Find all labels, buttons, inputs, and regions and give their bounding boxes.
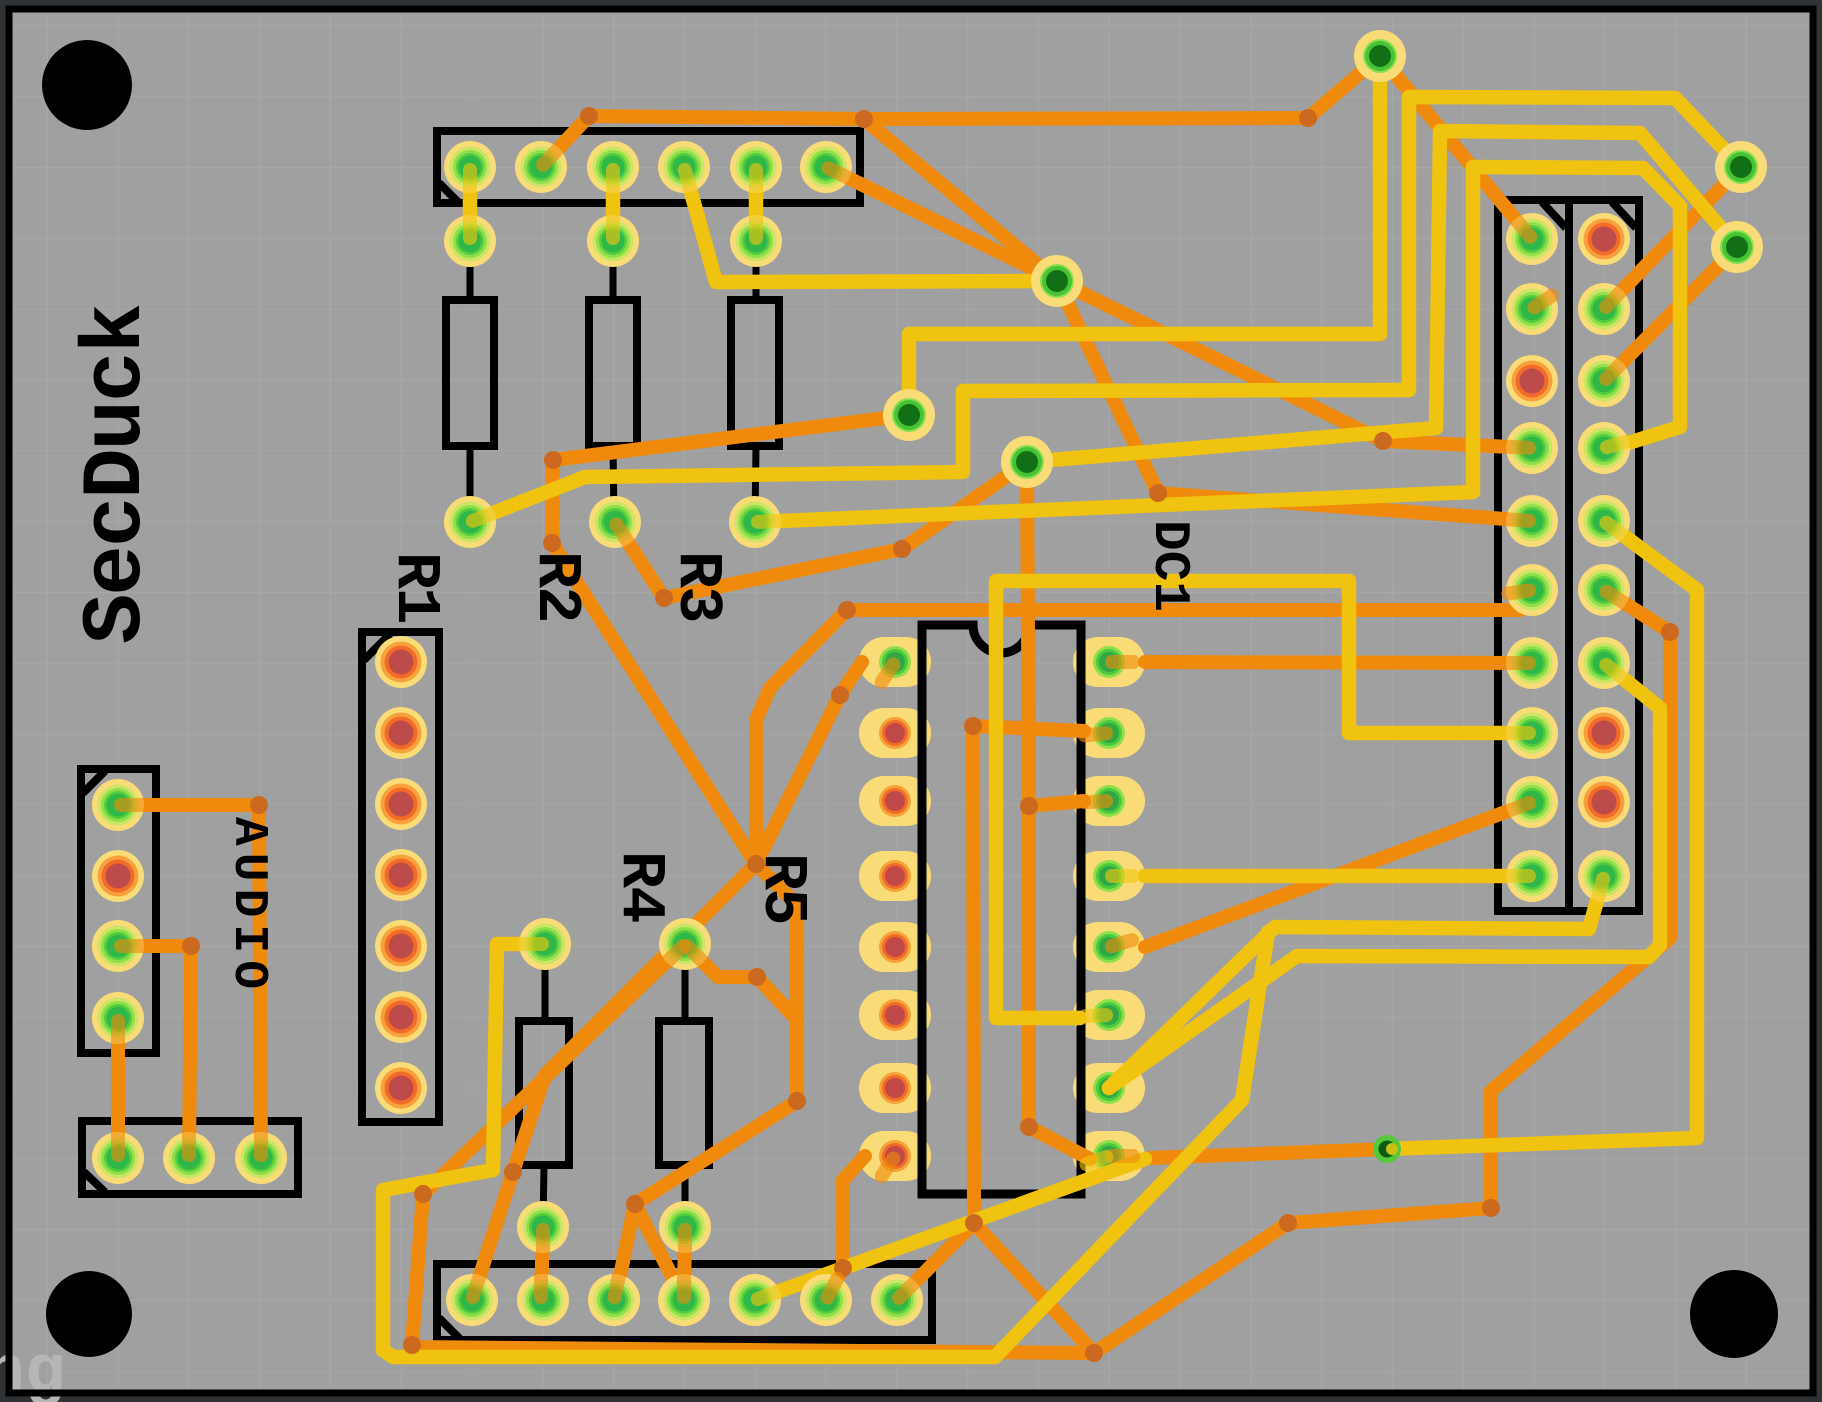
- IC U1 pin 10 pad: [1073, 1063, 1145, 1113]
- wire yellow stub col1: [463, 167, 478, 241]
- DC1 right pad: [1578, 850, 1630, 902]
- IC U1 pin 12 pad: [1073, 922, 1145, 972]
- AUDIO pin 4: [92, 992, 144, 1044]
- mounting hole bottom-left: [46, 1271, 132, 1357]
- wire D1 to D3 vertical: [756, 864, 797, 1101]
- R1 header pin 2: [375, 707, 427, 759]
- wire inner node down to bottom: [973, 726, 974, 1223]
- 3pin header pad: [92, 1132, 144, 1184]
- connector R1 7-pin female header outline: [362, 632, 439, 1122]
- bottom header pad: [871, 1274, 923, 1326]
- wire bottom bus up right: [1094, 590, 1670, 1353]
- svg-text:DC1: DC1: [1140, 520, 1197, 612]
- wire R2 bottom to via C: [615, 462, 1027, 598]
- DC1 left pad: [1506, 283, 1558, 335]
- wire R1 bottom to via V1: [470, 97, 1741, 522]
- wire via D to DC1 L1: [1380, 56, 1532, 239]
- IC U1 pin 7 pad: [859, 1063, 931, 1113]
- wire via S to IC R8: [1150, 1149, 1387, 1158]
- wire IC R7 to DC1 R10: [1109, 876, 1604, 1088]
- bottom header pad: [588, 1274, 640, 1326]
- wire orange to via A: [864, 119, 1057, 281]
- AUDIO pin 1: [92, 779, 144, 831]
- AUDIO pin 3: [92, 920, 144, 972]
- IC U1 pin 9 pad: [1073, 1131, 1145, 1181]
- wire header pad6 to DC1 L4: [826, 167, 1532, 448]
- via B: [883, 389, 935, 441]
- wire branch to IC R3: [1029, 801, 1084, 806]
- J1 pin 6: [800, 141, 852, 193]
- R4 bottom pad: [517, 1201, 569, 1253]
- resistor top pad: [730, 215, 782, 267]
- DC1 right pad: [1578, 637, 1630, 689]
- bottom header pad: [517, 1274, 569, 1326]
- R3 bottom pad: [729, 496, 781, 548]
- R1 header pin 5: [375, 920, 427, 972]
- wire via V2 to DC1 R3: [1604, 247, 1737, 381]
- wire orange top bus: [589, 116, 1308, 119]
- wire R4 bottom to pad2: [541, 1227, 543, 1300]
- svg-text:R1: R1: [380, 552, 451, 622]
- IC U1 pin 11 pad: [1073, 990, 1145, 1040]
- R1 header pin 1: [375, 636, 427, 688]
- wire IC R5 to DC1 L9: [1145, 802, 1532, 947]
- DC1 left pad: [1506, 850, 1558, 902]
- connector J1 6-pin header outline: [437, 131, 860, 203]
- via S small: [1373, 1135, 1401, 1163]
- 3pin header pad: [235, 1132, 287, 1184]
- wire AUDIO pad4 down: [111, 1018, 125, 1158]
- wire node to bottom pad7: [897, 1223, 974, 1300]
- IC U1 pin 8 pad: [859, 1131, 931, 1181]
- DC1 right pad: [1578, 564, 1630, 616]
- connector bottom 7-pin header outline: [437, 1264, 932, 1340]
- DC1 right pad: [1578, 776, 1630, 828]
- svg-text:R5: R5: [747, 853, 818, 923]
- R4 top pad: [519, 918, 571, 970]
- svg-text:AUDIO: AUDIO: [221, 817, 275, 996]
- R1 header pin 7: [375, 1062, 427, 1114]
- R2 bottom pad: [589, 496, 641, 548]
- IC U1 pin 16 pad: [1073, 637, 1145, 687]
- wire orange to header pad2: [541, 116, 589, 167]
- IC U1 pin 4 pad: [859, 851, 931, 901]
- resistor R2 body and leads: [589, 241, 637, 522]
- wire via B to junction D1: [552, 415, 909, 864]
- AUDIO pin 2: [92, 850, 144, 902]
- IC U1 body outline: [922, 625, 1081, 1194]
- via V2: [1711, 221, 1763, 273]
- bottom header pad: [658, 1274, 710, 1326]
- DC1 right pad: [1578, 355, 1630, 407]
- wire via V1 to DC1 R2: [1604, 167, 1741, 309]
- wire via C to via V2: [1027, 131, 1737, 462]
- R5 top pad: [659, 918, 711, 970]
- IC U1 pin 15 pad: [1073, 708, 1145, 758]
- DC1 right pad: [1578, 422, 1630, 474]
- wire IC L8 to bottom pad6: [826, 1156, 865, 1300]
- bottom header pad: [446, 1274, 498, 1326]
- DC1 left pad: [1506, 564, 1558, 616]
- wire AUDIO pad3 down: [118, 946, 191, 1158]
- IC U1 pin 1 pad: [859, 637, 931, 687]
- IC U1 pin 5 pad: [859, 922, 931, 972]
- wire node to DC1 L6: [847, 594, 1532, 610]
- DC1 right pad: [1578, 213, 1630, 265]
- wire R5 top loop to bottom pads: [635, 944, 797, 1300]
- svg-text:SecDuck: SecDuck: [70, 305, 165, 644]
- IC U1 pin 13 pad: [1073, 851, 1145, 901]
- wire IC R7 to DC1 R7: [1109, 663, 1660, 1088]
- connector DC1 2x10 header outline: [1498, 200, 1639, 911]
- resistor top pad: [444, 215, 496, 267]
- via C: [1001, 436, 1053, 488]
- wire orange to via D: [1308, 56, 1380, 118]
- DC1 left pad: [1506, 707, 1558, 759]
- wire IC R4 to DC1 L10: [1145, 869, 1532, 884]
- bottom header pad: [800, 1274, 852, 1326]
- wire bottom orange bus: [412, 1347, 1094, 1353]
- R1 header pin 4: [375, 849, 427, 901]
- wire via D to via B: [909, 60, 1380, 415]
- resistor top pad: [587, 215, 639, 267]
- wire via A to DC1 L5: [1057, 281, 1532, 521]
- mounting hole top-left: [42, 40, 132, 130]
- IC U1 pin 14 pad: [1073, 776, 1145, 826]
- via D: [1354, 30, 1406, 82]
- J1 pin 2: [515, 141, 567, 193]
- svg-text:R2: R2: [521, 551, 592, 621]
- IC U1 pin 2 pad: [859, 708, 931, 758]
- DC1 right pad: [1578, 495, 1630, 547]
- wire R4 top big loop: [383, 932, 1268, 1357]
- resistor R5 body and leads: [659, 944, 709, 1227]
- wire IC R8 to bottom pad5: [755, 1159, 1145, 1300]
- resistor R1 body and leads: [446, 241, 494, 522]
- IC U1 pin 3 pad: [859, 776, 931, 826]
- DC1 left pad: [1506, 637, 1558, 689]
- via A: [1031, 255, 1083, 307]
- trace tips over pads: [118, 150, 1627, 1299]
- resistor R3 body and leads: [731, 241, 779, 522]
- svg-text:R4: R4: [605, 851, 676, 922]
- R1 header pin 6: [375, 991, 427, 1043]
- wire IC R6 to DC1 L8: [996, 581, 1532, 1018]
- wire IC R2 from inner node: [973, 726, 1084, 731]
- DC1 right pad: [1578, 283, 1630, 335]
- wire yellow stub col5: [749, 167, 764, 241]
- wire R5 bottom to pad4: [684, 1227, 685, 1300]
- J1 pin 3: [587, 141, 639, 193]
- wire D1 to bottom pad1: [472, 864, 756, 1300]
- wire node to bottom bus: [974, 1223, 1094, 1353]
- wire via C down through IC: [1027, 462, 1090, 1159]
- R1 header pin 3: [375, 778, 427, 830]
- wire IC R1 to DC1 L7: [1145, 662, 1532, 663]
- bottom header pad: [729, 1274, 781, 1326]
- svg-text:R3: R3: [662, 551, 733, 621]
- J1 pin 4: [658, 141, 710, 193]
- connector 3-pin header outline: [82, 1121, 298, 1194]
- DC1 left pad: [1506, 355, 1558, 407]
- trace bendpoint dots: [580, 107, 598, 125]
- DC1 right pad: [1578, 707, 1630, 759]
- wire pad4 to via A: [684, 167, 1045, 282]
- DC1 left pad: [1506, 776, 1558, 828]
- R5 bottom pad: [659, 1201, 711, 1253]
- wire node to D1 via 45: [756, 610, 847, 864]
- resistor R4 body and leads: [519, 944, 569, 1227]
- mounting hole bottom-right: [1690, 1270, 1778, 1358]
- wire left vertical to bottom bus: [412, 1194, 423, 1345]
- DC1 left pad: [1506, 422, 1558, 474]
- connector AUDIO 4-pin header outline: [81, 769, 156, 1053]
- wire branch to bottom pad3: [615, 1204, 635, 1300]
- IC U1 pin 6 pad: [859, 990, 931, 1040]
- wire yellow stub col3: [606, 167, 621, 241]
- via V1: [1715, 141, 1767, 193]
- DC1 left pad: [1506, 213, 1558, 265]
- wire DC1 R5 to via S: [1387, 521, 1697, 1149]
- wire AUDIO pad1 right-down: [118, 805, 261, 1158]
- wire diag to R5 top: [423, 944, 685, 1194]
- J1 pin 1: [444, 141, 496, 193]
- DC1 left pad: [1506, 495, 1558, 547]
- wire IC L1 to D1: [756, 662, 862, 864]
- wire R3 bottom to DC1 R4: [755, 167, 1680, 522]
- 3pin header pad: [163, 1132, 215, 1184]
- J1 pin 5: [730, 141, 782, 193]
- R1 bottom pad: [444, 496, 496, 548]
